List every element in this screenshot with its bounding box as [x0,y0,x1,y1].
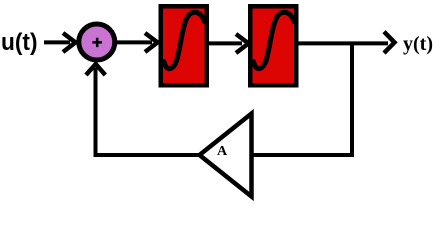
arrowhead into first block [145,33,158,52]
output wire [297,41,389,45]
amplifier triangle A [200,114,252,197]
wire input to summer [44,40,70,44]
svg-text:y(t): y(t) [403,33,433,55]
feedback tap wire down and left to amp base [253,43,352,155]
wire summer to first block [117,40,152,44]
svg-text:A: A [217,144,228,159]
feedback wire from amp apex left and up to summer [96,68,200,155]
integral sign in block 1 [164,12,205,68]
summing junction circle [79,24,115,60]
wire block1 to block2 [209,41,242,45]
output arrowhead [384,32,395,53]
integrator block 2 [250,6,296,85]
arrowhead into summer [63,33,76,52]
integral sign in block 2 [254,12,295,68]
arrowhead up into summer [86,64,105,75]
integrator block 1 [161,6,207,85]
plus sign in summer [92,38,102,47]
arrowhead into second block [236,34,249,53]
svg-text:u(t): u(t) [1,29,38,56]
